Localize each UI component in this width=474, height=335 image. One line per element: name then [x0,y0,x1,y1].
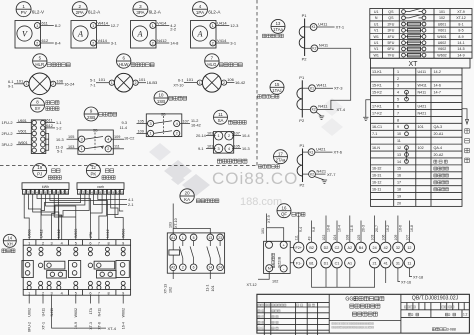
svg-text:20-7: 20-7 [375,225,379,232]
svg-text:111: 111 [114,145,120,149]
svg-text:8: 8 [108,241,110,245]
svg-text:14-7: 14-7 [434,91,441,95]
node to-compensation-cabinet [462,109,469,124]
svg-text:10-8: 10-8 [326,225,330,232]
wire breaker module links [290,247,294,262]
svg-text:2FU-2: 2FU-2 [2,131,14,136]
svg-text:1: 1 [28,291,30,295]
svg-text:kWh: kWh [42,185,49,189]
svg-text:111: 111 [295,235,299,240]
svg-text:12-7: 12-7 [111,23,120,28]
svg-text:9-3: 9-3 [122,121,128,125]
svg-text:8: 8 [108,291,110,295]
svg-text:QS: QS [388,16,394,20]
svg-text:17-K1: 17-K1 [372,104,382,108]
terminal-strip QA breaker contacts [294,242,415,268]
svg-text:11: 11 [397,139,401,143]
svg-text:103: 103 [207,131,213,135]
svg-text:103: 103 [169,222,173,228]
svg-text:2SB: 2SB [87,115,95,120]
wire N411 net [317,48,351,109]
svg-text:105: 105 [234,145,240,149]
svg-text:KA: KA [184,197,190,202]
svg-text:1: 1 [218,134,220,138]
svg-text:U412: U412 [39,229,43,238]
svg-text:K1: K1 [309,150,313,154]
svg-text:6L2-A: 6L2-A [208,9,221,14]
svg-text:11: 11 [120,190,123,194]
svg-text:XT-4: XT-4 [108,326,117,331]
svg-text:24: 24 [218,266,222,270]
svg-text:21: 21 [373,261,377,265]
svg-text:V601: V601 [18,130,27,134]
svg-text:11-6: 11-6 [350,225,354,232]
svg-text:A2: A2 [171,266,175,270]
svg-text:7-1: 7-1 [372,132,377,136]
svg-text:8-1: 8-1 [458,22,463,26]
svg-text:14-1: 14-1 [457,41,464,45]
svg-text:10-3: 10-3 [56,138,64,142]
svg-text:2: 2 [411,313,413,317]
svg-text:17: 17 [278,151,283,156]
svg-text:XT-12: XT-12 [247,283,257,287]
svg-text:SY: SY [35,106,41,111]
svg-text:14-5: 14-5 [457,47,464,51]
svg-text:6: 6 [193,266,195,270]
svg-text:6-1: 6-1 [178,79,184,83]
wire breaker top leads [295,216,414,243]
svg-text:13-K1: 13-K1 [372,70,382,74]
svg-text:XT-3: XT-3 [334,86,343,91]
svg-text:20: 20 [185,191,190,196]
svg-text:5: 5 [75,241,77,245]
svg-text:16-B3: 16-B3 [147,80,158,85]
svg-text:6FU: 6FU [388,47,395,51]
svg-text:105: 105 [68,135,74,139]
wire XT-7 [315,173,325,175]
svg-text:101: 101 [99,77,106,82]
svg-text:9: 9 [122,241,124,245]
svg-text:2-2: 2-2 [170,26,177,31]
svg-text:11: 11 [65,190,68,194]
meter P3PA unit 3 [131,2,180,48]
svg-text:101: 101 [211,286,215,292]
svg-text:14: 14 [208,266,212,270]
svg-text:16-42: 16-42 [235,80,246,85]
lamp HLR 合闸指示灯 [8,54,75,95]
svg-text:K2: K2 [310,172,314,176]
node instrument-door caption [217,159,247,163]
svg-text:P1: P1 [300,143,306,148]
svg-text:A1: A1 [348,261,353,265]
svg-text:13: 13 [276,21,281,26]
svg-text:3FU-2: 3FU-2 [2,142,14,147]
svg-text:N412: N412 [57,229,61,238]
svg-text:3: 3 [218,147,220,151]
svg-text:N412: N412 [157,38,167,43]
svg-text:W414: W414 [98,20,109,25]
svg-text:W1: W1 [373,53,378,57]
lamp HLW 储能指示灯 [90,54,158,92]
svg-text:109: 109 [138,129,144,133]
svg-text:105: 105 [138,120,144,124]
svg-text:XT: XT [409,61,419,68]
svg-text:1:2: 1:2 [463,313,468,317]
svg-text:12-3: 12-3 [230,23,239,28]
svg-text:7: 7 [397,111,399,115]
terminal-box XH unit 14 [2,234,131,295]
pushbutton 1SB [120,91,201,141]
svg-text:10-3: 10-3 [242,147,250,151]
svg-text:W602: W602 [437,53,446,57]
svg-text:SB: SB [161,113,166,117]
svg-text:7FU: 7FU [388,53,395,57]
svg-text:16-24: 16-24 [64,81,75,86]
svg-text:P1: P1 [302,13,308,18]
svg-text:HLW: HLW [119,62,129,67]
wire [149,98,343,208]
svg-text:188.com: 188.com [240,196,282,208]
svg-text:P2: P2 [302,57,308,62]
svg-text:A2: A2 [348,246,353,250]
svg-text:15: 15 [397,167,401,171]
wire module feeds [258,214,284,280]
svg-text:6L2-A: 6L2-A [88,9,101,14]
svg-text:4: 4 [61,241,63,245]
svg-text:14-2: 14-2 [434,70,441,74]
meter P2PA unit 2 [71,2,120,48]
lamp HLG 分闸指示灯 [173,54,246,92]
svg-text:N412: N412 [106,229,110,238]
svg-text:B2: B2 [309,246,314,250]
svg-text:2: 2 [223,81,225,85]
svg-text:102: 102 [169,287,173,293]
svg-text:15-K1: 15-K1 [372,84,382,88]
meter P1PA unit 4 [191,2,240,48]
svg-text:8: 8 [397,118,399,122]
svg-text:2: 2 [448,313,450,317]
svg-text:8-5: 8-5 [458,29,463,33]
svg-text:12: 12 [91,165,96,170]
svg-text:10-4: 10-4 [242,134,250,138]
svg-text:2: 2 [92,41,94,45]
svg-text:N411: N411 [97,308,101,316]
svg-text:16-C1: 16-C1 [372,125,382,129]
svg-text:XT-13: XT-13 [164,284,168,294]
svg-text:1: 1 [182,236,184,240]
svg-text:12: 12 [397,146,401,150]
svg-text:U411: U411 [418,70,427,74]
svg-text:3: 3 [51,291,53,295]
svg-text:XT-1: XT-1 [336,25,345,30]
svg-text:2: 2 [135,81,137,85]
svg-text:2: 2 [107,147,109,151]
svg-text:1: 1 [150,132,152,136]
svg-text:32: 32 [396,246,400,250]
svg-text:101: 101 [418,125,424,129]
svg-text:8-2: 8-2 [55,23,62,28]
svg-text:7-1: 7-1 [90,84,96,88]
svg-text:2: 2 [228,134,230,138]
svg-text:U1: U1 [374,10,379,14]
svg-text:U421: U421 [316,147,326,152]
svg-text:11: 11 [218,112,223,117]
svg-text:101: 101 [261,228,265,234]
svg-text:P2: P2 [299,118,305,123]
svg-text:QA-4: QA-4 [434,146,443,150]
svg-text:V601: V601 [438,29,446,33]
svg-text:B4: B4 [359,246,364,250]
svg-text:24: 24 [373,246,377,250]
svg-text:1TA: 1TA [89,307,93,314]
svg-text:XT-7: XT-7 [327,172,336,177]
svg-text:16-2: 16-2 [386,225,390,232]
svg-text:101: 101 [439,10,445,14]
svg-text:V414: V414 [157,20,167,25]
svg-text:A: A [77,29,84,38]
svg-text:2FU: 2FU [388,22,395,26]
svg-text:P1: P1 [299,75,305,80]
svg-text:V414: V414 [98,38,108,43]
svg-text:K1: K1 [312,25,316,29]
svg-text:K1: K1 [310,86,314,90]
svg-text:V1: V1 [374,29,378,33]
svg-text:2: 2 [397,77,399,81]
svg-text:1: 1 [397,70,399,74]
svg-text:6: 6 [89,241,91,245]
svg-text:6L2-A: 6L2-A [149,9,162,14]
svg-text:17: 17 [397,181,401,185]
svg-text:15-K2: 15-K2 [372,91,382,95]
svg-text:9-8: 9-8 [312,227,316,232]
svg-text:N421: N421 [317,168,327,173]
svg-text:C1: C1 [335,261,340,265]
svg-text:QS: QS [388,10,394,14]
svg-text:8-9: 8-9 [458,35,463,39]
svg-text:11: 11 [407,261,411,265]
svg-text:4: 4 [61,291,63,295]
svg-text:1: 1 [152,24,154,28]
svg-text:W411: W411 [317,83,328,88]
svg-text:102: 102 [272,280,278,284]
svg-text:101: 101 [139,77,146,82]
svg-text:109: 109 [114,135,120,139]
transformer 1TAc 15 [258,75,343,123]
svg-text:3-1: 3-1 [111,41,118,46]
svg-text:16-4: 16-4 [122,322,126,329]
svg-text:COi88.CO: COi88.CO [212,169,298,188]
svg-text:F1-: F1- [296,261,302,265]
svg-text:XT-6: XT-6 [334,150,343,155]
svg-text:1: 1 [28,241,30,245]
svg-text:A: A [196,29,203,38]
svg-text:1TAa: 1TAa [273,27,283,32]
svg-text:1-1: 1-1 [56,121,62,125]
svg-text:4: 4 [107,138,109,142]
svg-text:102: 102 [418,146,424,150]
svg-text:1: 1 [111,81,113,85]
svg-text:2: 2 [212,41,214,45]
svg-text:PV: PV [21,10,27,15]
svg-text:9-1: 9-1 [198,147,204,151]
svg-text:16-12: 16-12 [372,181,381,185]
svg-text:5: 5 [397,98,399,102]
svg-text:12: 12 [407,246,411,250]
svg-text:20-A1: 20-A1 [434,132,444,136]
svg-text:105: 105 [357,235,361,241]
wire tangle meters-to-terminals [24,194,127,239]
svg-text:XT-16: XT-16 [401,280,411,284]
svg-text:1PA: 1PA [196,10,204,15]
svg-text:16: 16 [282,205,287,210]
svg-text:6L2-V: 6L2-V [32,9,45,14]
node terminal-box bottom labels [28,307,126,332]
svg-text:U601: U601 [18,119,27,123]
svg-text:2: 2 [52,82,54,86]
svg-text:15: 15 [275,82,280,87]
svg-text:K2: K2 [312,47,316,51]
svg-text:4-1: 4-1 [128,198,134,202]
svg-text:3-1: 3-1 [230,41,237,46]
svg-text:W602: W602 [74,308,78,317]
svg-text:N421: N421 [418,111,427,115]
svg-text:31: 31 [396,261,400,265]
svg-text:19: 19 [37,165,42,170]
svg-text:10: 10 [159,93,164,98]
svg-text:GG8: GG8 [345,297,356,303]
svg-text:3: 3 [81,138,83,142]
svg-text:106: 106 [227,77,234,82]
svg-text:U601: U601 [438,22,447,26]
svg-text:16: 16 [397,174,401,178]
svg-text:3: 3 [150,122,152,126]
svg-text:106: 106 [382,235,386,241]
svg-text:V414: V414 [217,38,227,43]
svg-text:SA: SA [218,118,224,123]
svg-text:W411: W411 [418,84,427,88]
svg-text:612: 612 [42,38,49,43]
svg-text:1: 1 [36,24,38,28]
svg-text:1: 1 [199,81,201,85]
svg-text:9-4: 9-4 [299,227,303,232]
svg-text:107: 107 [183,120,189,124]
node terminal-box top labels [28,229,126,238]
svg-text:13: 13 [397,153,401,157]
switch SA changeover [196,110,250,153]
svg-text:104: 104 [333,235,337,241]
svg-text:103: 103 [371,235,375,241]
fuse table FU [370,8,472,58]
svg-text:XT-1: XT-1 [41,322,45,330]
svg-text:PJ: PJ [37,171,42,176]
svg-text:6FU-2: 6FU-2 [28,322,32,332]
svg-text:9-1: 9-1 [8,85,14,89]
svg-text:16-8: 16-8 [410,225,414,232]
svg-text:1: 1 [25,82,27,86]
svg-text:20-14: 20-14 [196,134,206,138]
node title block [257,294,470,335]
wire [0,0,257,166]
svg-text:5-1: 5-1 [57,150,63,154]
svg-text:N: N [268,266,271,271]
svg-text:4: 4 [397,91,399,95]
svg-text:5FU: 5FU [388,41,395,45]
svg-text:U421: U421 [418,104,427,108]
svg-text:4: 4 [228,147,230,151]
svg-text:1: 1 [212,24,214,28]
svg-text:XT-9: XT-9 [457,10,465,14]
svg-text:2TAa: 2TAa [276,158,286,163]
svg-text:XT-9: XT-9 [267,215,271,223]
svg-text:16-31: 16-31 [372,174,381,178]
svg-text:101: 101 [207,145,213,149]
svg-text:611: 611 [47,119,53,123]
svg-text:QB/T.DJ081903.02J: QB/T.DJ081903.02J [412,296,459,302]
svg-text:U603: U603 [28,229,32,238]
svg-text:14-6: 14-6 [434,84,441,88]
svg-text:101: 101 [17,78,24,83]
terminal-strip XT table [371,68,463,206]
svg-text:103: 103 [68,145,74,149]
svg-text:V602: V602 [438,47,446,51]
svg-text:varh: varh [97,185,104,189]
svg-text:W603: W603 [122,229,126,238]
svg-text:2: 2 [36,41,38,45]
svg-text:P2: P2 [300,183,306,188]
breaker QF unit 16 [277,204,305,218]
svg-text:107: 107 [405,235,409,241]
svg-text:2: 2 [42,291,44,295]
svg-text:F2+: F2+ [295,246,301,250]
svg-text:2TA: 2TA [89,231,93,238]
svg-text:49: 49 [308,237,312,241]
svg-text:14: 14 [7,235,12,240]
svg-text:PK: PK [90,171,96,176]
svg-text:W601: W601 [18,141,28,145]
svg-text:XT-10: XT-10 [173,83,183,87]
svg-text:QF: QF [281,212,287,217]
svg-text:XT-4: XT-4 [337,107,346,112]
svg-text:2-1: 2-1 [128,203,134,207]
svg-text:9: 9 [397,125,399,129]
svg-text:102: 102 [439,16,445,20]
svg-text:C2: C2 [335,246,340,250]
svg-text:XT-12: XT-12 [456,16,466,20]
svg-text:612: 612 [47,124,53,128]
svg-text:6: 6 [397,104,399,108]
svg-text:U411: U411 [41,308,45,316]
svg-text:N411: N411 [418,91,427,95]
svg-text:W1: W1 [373,35,378,39]
svg-text:20-A2: 20-A2 [434,153,444,157]
svg-text:10-4: 10-4 [337,225,341,232]
svg-text:102: 102 [322,235,326,241]
svg-text:6: 6 [89,291,91,295]
svg-text:16-32: 16-32 [372,167,381,171]
svg-text:20: 20 [397,201,401,205]
svg-text:W601: W601 [437,35,446,39]
svg-text:U602: U602 [28,308,32,317]
svg-text:2: 2 [176,132,178,136]
transformer 1TAa 13 [262,13,344,62]
meter PJ energy [22,164,69,195]
svg-text:B1: B1 [309,261,314,265]
wire terminal-box bottom stubs [28,295,30,303]
relay KA unit 20 [167,189,224,273]
svg-text:QA-3: QA-3 [434,125,443,129]
svg-text:8-4: 8-4 [55,41,62,46]
svg-text:16-N: 16-N [372,146,380,150]
